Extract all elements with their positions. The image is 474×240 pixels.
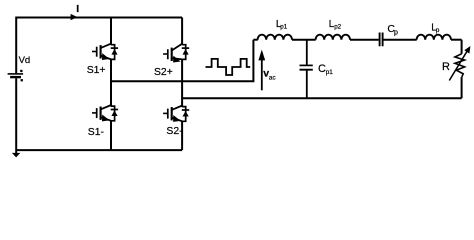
svg-text:p: p [394,29,398,36]
svg-text:S2-: S2- [166,126,182,137]
svg-text:S1-: S1- [88,127,104,138]
svg-text:Vd: Vd [19,55,31,66]
svg-text:p1: p1 [326,69,334,76]
svg-text:S1+: S1+ [87,65,106,76]
svg-text:ac: ac [269,75,277,82]
svg-text:R: R [442,61,450,73]
svg-text:p1: p1 [280,24,287,31]
svg-text:p2: p2 [334,24,341,31]
svg-text:p: p [436,27,440,34]
svg-text:I: I [76,3,79,15]
svg-text:S2+: S2+ [154,67,173,78]
